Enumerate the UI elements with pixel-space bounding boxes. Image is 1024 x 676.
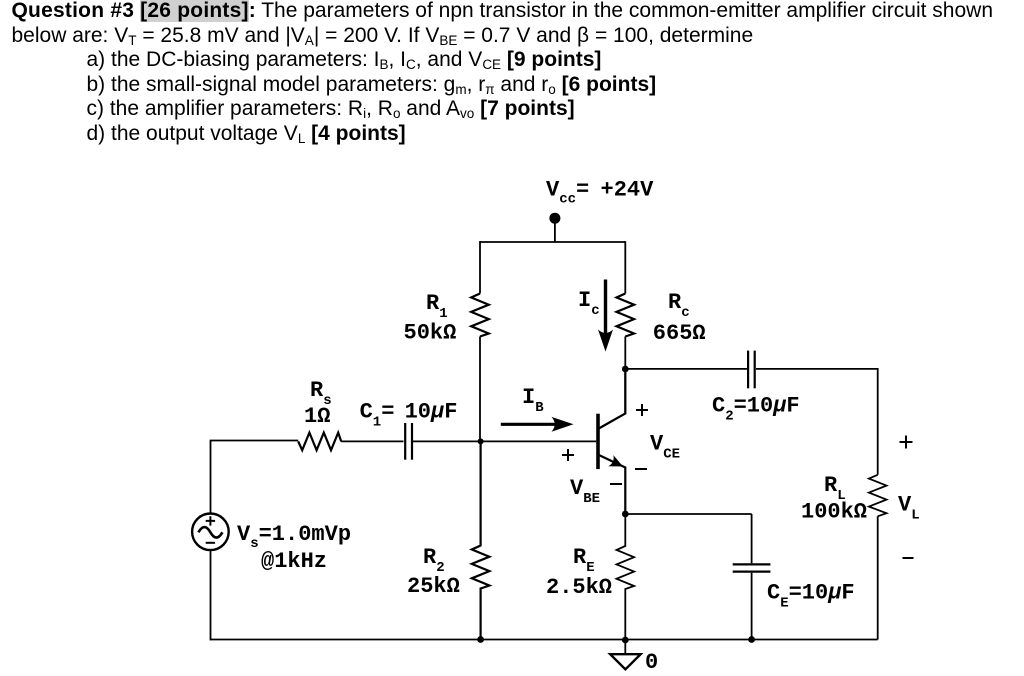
svg-text:Vcc=+24V: Vcc=+24V — [546, 178, 654, 208]
polarity VL plus — [900, 436, 913, 449]
wire left rail upper — [211, 441, 299, 514]
ground — [624, 640, 626, 654]
node collector junction — [622, 366, 629, 373]
svg-text:VCE: VCE — [650, 432, 680, 463]
wire emitter node to CE — [625, 513, 751, 515]
wire top rail — [480, 241, 625, 243]
node CE bottom junction — [748, 636, 755, 643]
svg-text:1Ω: 1Ω — [304, 404, 330, 429]
resistor RL — [869, 475, 887, 517]
node R2 bottom junction — [477, 636, 484, 643]
svg-text:100kΩ: 100kΩ — [801, 500, 867, 525]
svg-text:Rc: Rc — [668, 290, 690, 321]
wire bottom rail — [211, 639, 878, 641]
svg-text:C2=10µF: C2=10µF — [712, 394, 800, 425]
svg-text:IB: IB — [522, 385, 544, 416]
polarity VCE plus — [636, 404, 648, 416]
transistor Q1 emitter arrowhead — [608, 455, 623, 466]
svg-text:CE=10µF: CE=10µF — [767, 581, 855, 612]
svg-text:R1: R1 — [426, 291, 448, 322]
svg-text:0: 0 — [645, 650, 658, 675]
wire C2 to right corner — [756, 369, 878, 475]
capacitor C1 — [405, 423, 412, 460]
node base junction — [478, 438, 484, 444]
source Vs — [192, 514, 229, 551]
wire left rail lower — [210, 550, 212, 640]
resistor RC — [617, 294, 635, 337]
svg-text:Ic: Ic — [578, 288, 600, 319]
svg-text:2.5kΩ: 2.5kΩ — [546, 575, 612, 600]
polarity VCE minus — [635, 468, 647, 470]
svg-text:25kΩ: 25kΩ — [407, 574, 460, 599]
svg-text:VBE: VBE — [570, 476, 600, 507]
capacitor CE — [733, 564, 771, 571]
wire CE branch — [751, 514, 753, 640]
resistor R1 — [471, 294, 489, 337]
wire RL to bottom rail — [877, 516, 879, 639]
wire Rs to C1 — [341, 440, 403, 442]
current arrow IB — [501, 423, 560, 426]
wire collector node to C2 — [625, 368, 747, 370]
svg-text:50kΩ: 50kΩ — [404, 321, 457, 346]
capacitor C2 — [748, 351, 755, 389]
node emitter junction — [622, 511, 629, 518]
transistor Q1 emitter lead — [599, 455, 626, 514]
wire R1 to base node — [479, 337, 481, 442]
wire RC to collector — [624, 337, 626, 414]
resistor R2 — [472, 441, 490, 639]
current arrow IC — [604, 280, 607, 339]
wire right branch upper — [624, 241, 626, 293]
node VCC terminal — [549, 213, 560, 224]
svg-text:R2: R2 — [423, 545, 445, 576]
svg-text:VL: VL — [898, 493, 920, 524]
node emitter bottom junction — [622, 637, 629, 644]
transistor Q1 base bar — [596, 414, 600, 469]
polarity VL minus — [903, 557, 914, 559]
transistor Q1 collector lead — [599, 369, 626, 429]
svg-text:@1kHz: @1kHz — [261, 549, 327, 574]
wire VCC stub — [554, 219, 556, 242]
resistor RE — [617, 514, 635, 640]
polarity VBE plus — [562, 449, 574, 461]
wire left branch upper — [479, 241, 481, 293]
wire C1 to base — [413, 440, 597, 442]
svg-text:Vs=1.0mVp: Vs=1.0mVp — [237, 522, 351, 552]
svg-text:RE: RE — [573, 545, 595, 576]
resistor Rs — [298, 433, 341, 451]
svg-text:C1=10µF: C1=10µF — [360, 400, 458, 431]
polarity VBE minus — [610, 483, 622, 485]
svg-text:665Ω: 665Ω — [653, 321, 706, 346]
